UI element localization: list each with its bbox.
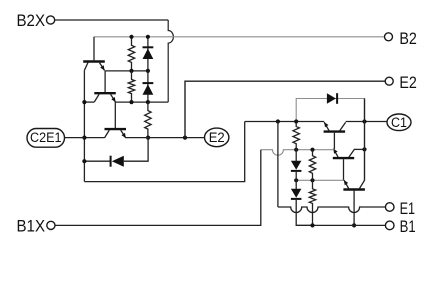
node R1 top bbox=[129, 35, 133, 39]
node Q2 collector junction bbox=[82, 100, 86, 104]
terminal E1 bbox=[385, 199, 415, 218]
terminal B2X bbox=[17, 11, 55, 30]
wire C2E1 long interconnect to right block bbox=[84, 122, 244, 182]
wire Q3 collector to C2E1 rail bbox=[84, 137, 104, 139]
transistor Q6 (Darlington stage 1, right block) bbox=[343, 180, 365, 189]
resistor R5 bbox=[309, 150, 315, 181]
node R3 bottom / FW diode riser bbox=[146, 136, 150, 140]
terminal B2 bbox=[385, 29, 417, 48]
transistor Q3 (output stage, left block) bbox=[105, 129, 127, 138]
node R2 bottom bbox=[129, 100, 133, 104]
terminal B1X bbox=[17, 217, 56, 236]
wire mid line y180 bbox=[296, 179, 343, 181]
wire B1X long wire and riser to base line bbox=[55, 150, 261, 226]
wire Q5 base riser bbox=[343, 159, 345, 180]
svg-text:C2E1: C2E1 bbox=[30, 130, 62, 146]
wire B2X horizontal bbox=[55, 19, 168, 21]
diode D3 (speed-up, right block) bbox=[291, 150, 302, 181]
wire Q1 base riser bbox=[93, 37, 95, 61]
node D1 bottom / D2 top bbox=[146, 69, 150, 73]
transistor Q4 (output stage, right block) bbox=[324, 122, 346, 131]
wire base line y150 with hop over E1 riser bbox=[261, 150, 335, 156]
transistor Q1 (Darlington stage 1, left block) bbox=[83, 62, 105, 71]
node C1 junction bbox=[362, 119, 366, 123]
node R5 top bbox=[310, 148, 314, 152]
wire collector bus x84 vertical bbox=[83, 70, 85, 181]
node D2 bottom / R3 top bbox=[146, 100, 150, 104]
node R6 bottom on B1 rail bbox=[310, 223, 314, 227]
svg-text:B2: B2 bbox=[399, 29, 417, 48]
oval label C1 bbox=[387, 114, 411, 131]
wire Q2 emitter rail y102 bbox=[116, 101, 169, 103]
wire Q5 collector to C1 riser bbox=[355, 148, 365, 150]
node D3 bottom / D4 top bbox=[294, 178, 298, 182]
wire Q4 collector to C1 bbox=[346, 121, 388, 123]
node E2 riser junction bbox=[183, 136, 187, 140]
node DF2 cathode junction bbox=[82, 159, 86, 163]
wire Q4 emitter row y121.5 bbox=[245, 121, 325, 123]
wire Q3 base riser bbox=[114, 102, 116, 128]
node Q6 base to B1 rail bbox=[352, 223, 356, 227]
resistor R1 (B2 to Q1 emitter node) bbox=[128, 37, 134, 71]
wire right top rail with freewheel diode DF1 bbox=[296, 99, 364, 122]
node R5 bottom / R6 top bbox=[310, 178, 314, 182]
wire B1 rail bbox=[296, 224, 385, 226]
svg-text:E2: E2 bbox=[209, 130, 225, 146]
wire E2 riser and line to right edge bbox=[185, 81, 385, 137]
wire Q2 base riser bbox=[104, 71, 106, 92]
wire B2X vertical with hop over B2 rail bbox=[168, 20, 173, 102]
resistor R6 bbox=[309, 180, 315, 225]
oval label C2E1 bbox=[27, 129, 65, 148]
svg-text:E2: E2 bbox=[399, 73, 417, 92]
terminal E2 bbox=[385, 73, 417, 92]
wire C2E1 oval to rail bbox=[65, 137, 85, 139]
oval label E2 bbox=[205, 128, 229, 147]
node Q5 collector junction bbox=[362, 147, 366, 151]
transistor Q5 (Darlington stage 2, right block) bbox=[333, 149, 355, 158]
resistor R2 (Q1 emitter node to Q2 emitter node) bbox=[128, 71, 134, 102]
node E1 riser junction on Q4 row bbox=[276, 119, 280, 123]
transistor Q2 (Darlington stage 2, left block) bbox=[94, 93, 116, 102]
svg-text:E1: E1 bbox=[400, 199, 416, 218]
svg-text:B1X: B1X bbox=[17, 217, 46, 236]
svg-text:C1: C1 bbox=[391, 115, 407, 131]
resistor R4 (Q4 base-emitter) bbox=[293, 122, 299, 150]
wire C1 riser x364 bbox=[364, 99, 366, 181]
node D1 top bbox=[146, 35, 150, 39]
wire Q4 base riser bbox=[333, 133, 335, 150]
wire B2 base rail bbox=[94, 36, 384, 38]
diode D4 (speed-up, right block) bbox=[291, 180, 313, 225]
freewheel diode DF1 (E1 to C1) bbox=[327, 93, 337, 104]
diode D1 (speed-up, lower to B2 rail) bbox=[143, 37, 154, 71]
wire mid rail y71 bbox=[105, 70, 148, 72]
wire Q6 base riser bbox=[353, 191, 355, 226]
wire E1 riser and E1 rail with hops bbox=[278, 122, 385, 213]
wire E2 rail (Q3 emitter to E2 oval) bbox=[126, 137, 205, 139]
freewheel diode DF2 (C2E1 to E2) bbox=[84, 138, 148, 167]
node C2E1 rail / collector bus junction bbox=[82, 136, 86, 140]
node R4 top junction bbox=[294, 119, 298, 123]
node R4 bottom / D3 top bbox=[294, 148, 298, 152]
terminal B1 bbox=[385, 217, 415, 236]
resistor R3 (Q3 base-emitter) bbox=[145, 102, 151, 138]
diode D2 (speed-up) bbox=[143, 71, 154, 102]
svg-text:B1: B1 bbox=[400, 217, 416, 236]
wire Q2 collector to x84 bus bbox=[84, 101, 94, 103]
svg-text:B2X: B2X bbox=[17, 11, 46, 30]
node R1 bottom / R2 top bbox=[129, 69, 133, 73]
